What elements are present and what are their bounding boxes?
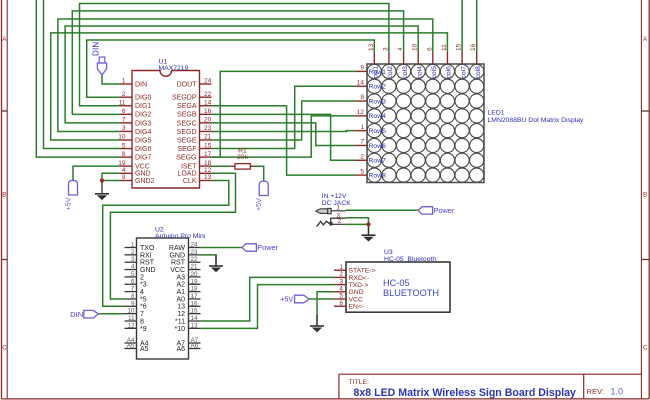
- svg-text:HC-05_Bluetooth: HC-05_Bluetooth: [384, 256, 436, 263]
- svg-text:5: 5: [360, 168, 364, 175]
- svg-text:5: 5: [339, 293, 343, 300]
- wire U3 GND to ground: [317, 292, 334, 326]
- IC U1 MAX7219 LED driver: [118, 59, 211, 189]
- svg-text:C: C: [2, 345, 7, 352]
- svg-text:8: 8: [122, 151, 126, 158]
- wire CLK to U2 *6: [103, 181, 229, 307]
- wire SEGB to Row6: [212, 123, 356, 146]
- svg-text:*9: *9: [140, 326, 147, 333]
- svg-text:A1: A1: [176, 289, 185, 296]
- svg-text:14: 14: [204, 99, 212, 106]
- svg-text:ISET: ISET: [181, 164, 197, 171]
- wire DIN flag to U1 DIN: [102, 75, 120, 84]
- power flag Power at U2 RAW: [242, 243, 279, 252]
- svg-text:HC-05: HC-05: [383, 278, 410, 288]
- svg-text:18: 18: [191, 286, 199, 293]
- svg-text:1: 1: [131, 242, 135, 249]
- svg-text:col3: col3: [402, 66, 409, 79]
- wire SEGDP to Row8: [212, 106, 356, 175]
- svg-text:8: 8: [140, 318, 144, 325]
- wire SEGG to Row4: [212, 116, 356, 157]
- svg-text:B: B: [643, 192, 647, 199]
- LED matrix LED1 LMN2088BU: [355, 43, 584, 182]
- svg-text:19: 19: [118, 160, 126, 167]
- svg-text:3: 3: [131, 256, 135, 263]
- wire SEGC to Row5: [212, 130, 356, 133]
- wire U1 GND to ground: [102, 173, 120, 180]
- svg-text:SEGA: SEGA: [177, 103, 197, 110]
- svg-text:DIG3: DIG3: [135, 120, 151, 127]
- wire SEGD to Row3: [212, 101, 356, 140]
- svg-text:12: 12: [357, 109, 365, 116]
- svg-text:3: 3: [382, 47, 389, 51]
- svg-text:A6: A6: [176, 346, 185, 353]
- svg-text:GND: GND: [349, 289, 364, 296]
- svg-text:TXD->: TXD->: [349, 282, 369, 289]
- wire LOAD to U2 *5: [110, 173, 235, 299]
- svg-text:16: 16: [191, 300, 199, 307]
- svg-text:14: 14: [191, 315, 199, 322]
- svg-text:DIN: DIN: [92, 42, 101, 56]
- svg-text:2: 2: [339, 271, 343, 278]
- wire DIG5 to col6: [51, 33, 448, 140]
- svg-text:+5V: +5V: [64, 197, 73, 210]
- svg-text:SEGD: SEGD: [177, 129, 197, 136]
- svg-text:GND: GND: [169, 252, 185, 259]
- wire +5V flag to U3 VCC: [309, 298, 334, 300]
- svg-text:5: 5: [122, 142, 126, 149]
- svg-text:11: 11: [441, 44, 448, 51]
- svg-text:DIG6: DIG6: [135, 146, 151, 153]
- net flag DIN at U2: [84, 310, 99, 318]
- svg-text:10: 10: [127, 308, 135, 315]
- svg-text:6: 6: [122, 108, 126, 115]
- svg-text:15: 15: [191, 308, 199, 315]
- wire U1 VCC to +5V: [73, 166, 120, 180]
- svg-text:6: 6: [426, 47, 433, 51]
- svg-text:*5: *5: [140, 296, 147, 303]
- svg-text:STATE->: STATE->: [349, 268, 376, 275]
- svg-text:9: 9: [131, 300, 135, 307]
- svg-text:24: 24: [191, 242, 199, 249]
- svg-text:13: 13: [204, 174, 212, 181]
- wire U2 RAW to Power flag: [201, 247, 242, 249]
- svg-text:19: 19: [191, 278, 199, 285]
- svg-text:Row8: Row8: [369, 172, 387, 179]
- ground at DC jack: [362, 226, 376, 241]
- svg-text:1: 1: [360, 124, 364, 131]
- svg-text:DIG0: DIG0: [135, 95, 151, 102]
- svg-text:4: 4: [131, 264, 135, 271]
- svg-text:12: 12: [204, 167, 212, 174]
- svg-text:13: 13: [177, 304, 185, 311]
- ground at U3 GND: [310, 315, 324, 332]
- svg-text:23: 23: [191, 249, 199, 256]
- power flag Power at DC jack: [418, 206, 455, 215]
- svg-text:col5: col5: [431, 66, 438, 79]
- svg-text:2: 2: [140, 274, 144, 281]
- wire DC jack pin2 to ground: [346, 224, 369, 235]
- svg-text:+5V: +5V: [254, 198, 263, 211]
- svg-text:17: 17: [204, 151, 212, 158]
- svg-text:LMN2088BU Dot Matrix Display: LMN2088BU Dot Matrix Display: [488, 117, 585, 124]
- svg-text:12: 12: [127, 322, 135, 329]
- svg-text:RXD<-: RXD<-: [349, 275, 370, 282]
- svg-text:col7: col7: [460, 66, 467, 79]
- svg-text:8: 8: [131, 293, 135, 300]
- wire DIG1 to col2: [80, 4, 389, 106]
- svg-text:4: 4: [122, 167, 126, 174]
- svg-text:9: 9: [122, 174, 126, 181]
- svg-text:B: B: [2, 192, 6, 199]
- wire DIG3 to col4: [65, 26, 418, 123]
- wire DC jack pin1 to Power flag: [346, 209, 419, 211]
- svg-text:DIG2: DIG2: [135, 112, 151, 119]
- svg-text:RAW: RAW: [169, 245, 185, 252]
- svg-text:VCC: VCC: [170, 267, 185, 274]
- svg-text:20k: 20k: [237, 154, 249, 161]
- svg-text:DOUT: DOUT: [177, 81, 198, 88]
- svg-text:*3: *3: [140, 282, 147, 289]
- svg-text:20: 20: [191, 271, 199, 278]
- svg-text:DIN: DIN: [70, 310, 83, 319]
- svg-text:col2: col2: [387, 66, 394, 79]
- svg-text:A0: A0: [176, 296, 185, 303]
- power flag +5V at U3 VCC: [280, 295, 309, 304]
- title block: [339, 374, 642, 399]
- wire ISET to R1: [212, 165, 232, 167]
- svg-text:16: 16: [470, 43, 477, 51]
- svg-text:3: 3: [339, 278, 343, 285]
- wire DIG0 to col1: [87, 40, 375, 97]
- power flag +5V at U1 VCC: [64, 180, 78, 210]
- svg-text:7: 7: [122, 117, 126, 124]
- svg-text:DIN: DIN: [135, 81, 147, 88]
- junction U1 GND/GND2: [100, 178, 104, 182]
- svg-text:8x8 LED Matrix Wireless Sign B: 8x8 LED Matrix Wireless Sign Board Displ…: [354, 387, 577, 399]
- svg-text:VCC: VCC: [349, 296, 363, 303]
- svg-text:2: 2: [122, 91, 126, 98]
- svg-text:TXO: TXO: [140, 245, 155, 252]
- svg-text:9: 9: [360, 65, 364, 72]
- svg-text:15: 15: [204, 142, 212, 149]
- svg-text:4: 4: [339, 286, 343, 293]
- ground near U1: [95, 183, 109, 201]
- svg-text:Row5: Row5: [369, 128, 387, 135]
- svg-text:VCC: VCC: [135, 164, 150, 171]
- svg-text:A3: A3: [176, 274, 185, 281]
- resistor R1 20k: [231, 147, 255, 169]
- DC jack J1: [316, 193, 351, 226]
- svg-text:REV:: REV:: [587, 387, 604, 396]
- svg-text:10: 10: [412, 43, 419, 51]
- svg-text:Row7: Row7: [369, 158, 387, 165]
- svg-text:4: 4: [397, 47, 404, 51]
- svg-text:CLK: CLK: [183, 178, 197, 185]
- svg-text:RST: RST: [140, 260, 155, 267]
- wire U2 GND to ground: [201, 255, 217, 266]
- svg-text:1.0: 1.0: [611, 387, 624, 397]
- svg-text:RST: RST: [171, 260, 186, 267]
- svg-text:+5V: +5V: [280, 295, 293, 304]
- svg-text:MAX7219: MAX7219: [159, 65, 189, 72]
- svg-text:DIG5: DIG5: [135, 137, 151, 144]
- svg-text:13: 13: [191, 322, 199, 329]
- svg-text:col1: col1: [373, 66, 380, 79]
- svg-text:GND: GND: [135, 171, 151, 178]
- svg-text:15: 15: [456, 43, 463, 51]
- ground near U2 GND: [209, 255, 223, 272]
- svg-text:SEGF: SEGF: [177, 146, 196, 153]
- svg-text:LOAD: LOAD: [177, 171, 196, 178]
- net flag DIN (top left, vertical): [92, 42, 107, 75]
- wire DIG6 to col7: [44, 0, 463, 149]
- wire DIG2 to col3: [72, 11, 403, 114]
- svg-text:22: 22: [191, 256, 199, 263]
- svg-text:12: 12: [177, 311, 185, 318]
- svg-text:SEGDP: SEGDP: [172, 95, 197, 102]
- svg-text:7: 7: [131, 286, 135, 293]
- svg-text:2: 2: [131, 249, 135, 256]
- svg-text:1: 1: [122, 78, 126, 85]
- svg-text:21: 21: [191, 264, 199, 271]
- svg-text:LED1: LED1: [488, 110, 505, 117]
- svg-text:13: 13: [368, 43, 375, 51]
- svg-text:col4: col4: [416, 66, 423, 79]
- svg-text:RXI: RXI: [140, 252, 152, 259]
- svg-text:8: 8: [360, 94, 364, 101]
- svg-text:Power: Power: [434, 206, 455, 215]
- svg-text:1: 1: [339, 264, 343, 271]
- svg-text:Row4: Row4: [369, 113, 387, 120]
- svg-text:17: 17: [191, 293, 199, 300]
- svg-text:*6: *6: [140, 304, 147, 311]
- svg-text:C: C: [643, 345, 648, 352]
- svg-text:Row3: Row3: [369, 98, 387, 105]
- svg-text:GND: GND: [140, 267, 156, 274]
- svg-text:BLUETOOTH: BLUETOOTH: [383, 288, 439, 298]
- power flag +5V at R1/ISET: [254, 181, 268, 211]
- junction DC jack pin2/pin3: [366, 222, 370, 226]
- svg-text:7: 7: [360, 139, 364, 146]
- svg-text:2: 2: [360, 153, 364, 160]
- svg-text:22: 22: [204, 91, 212, 98]
- IC U2 Arduino Pro Mini: [125, 227, 206, 360]
- svg-text:11: 11: [128, 315, 135, 322]
- svg-text:Power: Power: [257, 243, 278, 252]
- svg-text:18: 18: [204, 160, 212, 167]
- IC U3 HC-05 Bluetooth: [334, 249, 450, 312]
- svg-text:1: 1: [336, 204, 340, 211]
- svg-text:21: 21: [204, 134, 212, 141]
- wire R1 to +5V: [255, 166, 264, 181]
- svg-text:24: 24: [204, 78, 212, 85]
- svg-text:A5: A5: [127, 343, 135, 350]
- svg-text:SEGB: SEGB: [177, 112, 197, 119]
- wire DC jack pin3: [346, 218, 369, 225]
- svg-text:23: 23: [204, 125, 212, 132]
- svg-text:col6: col6: [446, 66, 453, 79]
- svg-text:2: 2: [338, 218, 342, 225]
- svg-text:Row2: Row2: [369, 84, 387, 91]
- svg-text:10: 10: [118, 134, 126, 141]
- svg-text:6: 6: [131, 278, 135, 285]
- svg-text:6: 6: [339, 300, 343, 307]
- svg-text:GND2: GND2: [135, 178, 155, 185]
- wire U2 *11 to U3 RXD: [201, 277, 335, 321]
- svg-text:col8: col8: [475, 66, 482, 79]
- svg-text:DIG7: DIG7: [135, 155, 151, 162]
- svg-text:A5: A5: [140, 346, 149, 353]
- svg-text:SEGG: SEGG: [176, 155, 196, 162]
- wire SEGF to Row1: [212, 71, 356, 157]
- svg-text:DIG4: DIG4: [135, 129, 151, 136]
- svg-text:SEGC: SEGC: [177, 120, 197, 127]
- svg-text:20: 20: [204, 117, 212, 124]
- svg-text:TITLE:: TITLE:: [349, 379, 370, 386]
- wire SEGE to Row2: [212, 86, 356, 148]
- wire DIN flag to U2 pin7: [98, 313, 124, 315]
- svg-text:4: 4: [140, 289, 144, 296]
- svg-text:*10: *10: [174, 326, 185, 333]
- wire DIG4 to col5: [58, 19, 433, 131]
- svg-text:A6: A6: [191, 343, 199, 350]
- svg-text:Row6: Row6: [369, 143, 387, 150]
- svg-text:A2: A2: [176, 282, 185, 289]
- svg-text:5: 5: [131, 271, 135, 278]
- svg-text:7: 7: [140, 311, 144, 318]
- svg-text:DIG1: DIG1: [135, 103, 151, 110]
- svg-text:*11: *11: [175, 318, 185, 325]
- wire DIG7 to col8: [36, 0, 476, 157]
- svg-text:11: 11: [119, 99, 126, 106]
- svg-text:16: 16: [204, 108, 212, 115]
- svg-text:Arduino Pro Mini: Arduino Pro Mini: [155, 233, 206, 240]
- svg-text:14: 14: [357, 79, 365, 86]
- svg-text:EN<-: EN<-: [349, 304, 365, 311]
- wire U2 *10 to U3 TXD: [201, 285, 335, 329]
- svg-text:3: 3: [122, 125, 126, 132]
- wire SEGA to Row7: [212, 114, 356, 160]
- svg-text:SEGE: SEGE: [177, 137, 197, 144]
